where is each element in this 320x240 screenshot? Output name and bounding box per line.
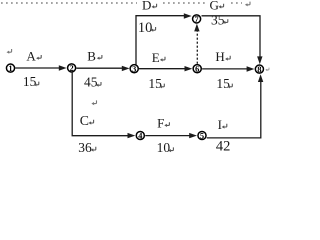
arrowhead D into node 7 xyxy=(184,13,192,18)
wire E: node 3 to node 6 xyxy=(139,68,185,70)
svg-text:15: 15 xyxy=(148,76,162,91)
node 8 xyxy=(255,65,263,73)
svg-text:B: B xyxy=(87,48,96,63)
return mark right of node 8 xyxy=(265,68,269,71)
return mark after 45 xyxy=(96,82,101,87)
dotted tab leader line (top) segment 2 xyxy=(163,2,206,4)
arrowhead dummy into node 7 bottom xyxy=(194,24,199,32)
standalone return mark in C region xyxy=(91,100,96,105)
return mark after A xyxy=(36,55,41,60)
return mark after H xyxy=(225,56,230,61)
svg-text:A: A xyxy=(26,48,36,63)
return mark after 35 xyxy=(223,19,228,24)
arrowhead B into node 3 xyxy=(122,66,130,71)
return mark after I xyxy=(222,124,227,129)
svg-text:H: H xyxy=(215,49,224,64)
wire B: node 2 to node 3 xyxy=(76,67,122,69)
svg-text:35: 35 xyxy=(211,13,225,28)
svg-text:15: 15 xyxy=(216,76,230,91)
dotted tab leader line (top) segment 1 xyxy=(1,2,137,4)
return mark after 15 xyxy=(159,84,164,89)
svg-text:F: F xyxy=(157,115,164,130)
return mark after B xyxy=(97,55,102,60)
return mark end of top line xyxy=(245,2,250,7)
wire C: node 2 down then right to node 4 xyxy=(72,73,128,136)
arrowhead A into node 2 xyxy=(59,65,67,70)
dotted tab leader line (top) segment 3 xyxy=(231,2,242,4)
arrowhead C into node 4 xyxy=(128,133,136,138)
return mark after 15 xyxy=(227,84,232,89)
arrowhead F into node 5 xyxy=(189,133,197,138)
svg-text:10: 10 xyxy=(138,20,153,36)
return mark after 10 xyxy=(168,147,173,152)
svg-text:C: C xyxy=(80,113,89,128)
svg-text:E: E xyxy=(152,50,160,65)
node 5 xyxy=(198,131,206,139)
svg-text:10: 10 xyxy=(157,140,171,155)
arrowhead I into node 8 bottom xyxy=(258,74,263,82)
arrowhead E into node 6 xyxy=(185,66,193,71)
return mark after D xyxy=(152,4,157,9)
return mark after 10 xyxy=(151,27,156,32)
return mark after G xyxy=(219,4,224,9)
wire G: from node 7 right then down to node 8 xyxy=(202,16,261,57)
arrowhead G into node 8 top xyxy=(257,56,262,64)
svg-text:G: G xyxy=(210,0,219,13)
return mark after E xyxy=(160,57,165,62)
node 2 xyxy=(68,64,76,72)
return mark after 36 xyxy=(91,147,96,152)
return mark after C xyxy=(89,120,94,125)
node 6 xyxy=(193,65,201,73)
node 4 xyxy=(136,131,144,139)
wire F: node 4 to node 5 xyxy=(145,135,190,137)
wire A: node 1 to node 2 xyxy=(15,67,59,69)
svg-text:D: D xyxy=(142,0,151,13)
return mark after 15 xyxy=(34,82,39,87)
arrowhead H into node 8 xyxy=(247,66,255,71)
svg-text:42: 42 xyxy=(216,139,231,155)
node 7 xyxy=(193,15,201,23)
svg-text:15: 15 xyxy=(23,74,37,89)
return mark after F xyxy=(164,122,169,127)
node 1 xyxy=(6,64,14,72)
svg-text:36: 36 xyxy=(78,140,92,155)
wire D: from node 3 up then right to node 7 xyxy=(136,16,185,65)
standalone return mark above node 1 xyxy=(7,49,12,54)
svg-text:45: 45 xyxy=(84,75,98,90)
node 3 xyxy=(130,65,138,73)
wire H: node 6 to node 8 xyxy=(202,68,247,70)
dummy dashed arrow node 6 to node 7 xyxy=(196,29,198,64)
wire I: node 5 right then up to node 8 xyxy=(207,82,261,138)
svg-text:I: I xyxy=(218,117,222,132)
